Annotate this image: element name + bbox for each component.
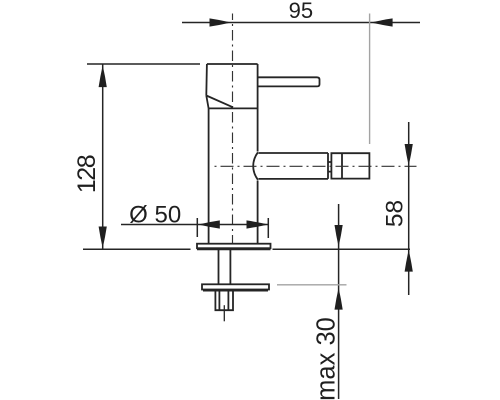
dimension line max 30 bbox=[338, 204, 340, 399]
arrowhead d50 right bbox=[247, 220, 269, 228]
spout centerline (horizontal dash-dot) bbox=[215, 165, 417, 167]
spout tube bbox=[259, 153, 329, 179]
faucet body bbox=[209, 64, 258, 244]
body centerline (vertical dash-dot) bbox=[232, 14, 234, 244]
dimension line 128 bbox=[102, 65, 104, 250]
arrowhead 95 right bbox=[371, 18, 393, 26]
handle top cap bbox=[206, 64, 257, 108]
arrowhead 128 top bbox=[99, 65, 107, 87]
countertop surface line bbox=[83, 248, 410, 250]
lever arm bbox=[258, 77, 320, 86]
svg-text:95: 95 bbox=[289, 0, 313, 23]
nut center mark bbox=[223, 305, 225, 321]
base plate bbox=[197, 244, 271, 249]
mounting nut bbox=[215, 290, 233, 311]
extension tick d50 left bbox=[196, 218, 198, 237]
dimension line 95 bbox=[182, 22, 420, 24]
spout neck groove bbox=[328, 162, 331, 172]
dimension line diameter 50 bbox=[121, 224, 268, 226]
arrowhead 58 bottom bbox=[405, 250, 413, 272]
dimension line 58 bbox=[408, 122, 410, 295]
arrowhead 95 left bbox=[210, 18, 232, 26]
extension line right (grey) bbox=[369, 14, 371, 145]
arrowhead 58 top bbox=[405, 144, 413, 166]
arrowhead d50 left bbox=[198, 220, 220, 228]
svg-text:128: 128 bbox=[73, 155, 101, 193]
extension line top (128) bbox=[87, 63, 200, 65]
svg-text:58: 58 bbox=[382, 200, 409, 227]
threaded shank bbox=[219, 249, 231, 285]
svg-text:Ø 50: Ø 50 bbox=[129, 201, 181, 228]
arrowhead max30 up bbox=[335, 288, 343, 310]
svg-text:max 30: max 30 bbox=[313, 317, 341, 400]
spout-body intersection curve bbox=[253, 152, 258, 180]
aerator housing bbox=[331, 153, 369, 178]
arrowhead max30 down bbox=[335, 225, 343, 247]
arrowhead 128 bottom bbox=[99, 227, 107, 249]
mounting washer plate bbox=[202, 284, 269, 289]
countertop underside line (grey) bbox=[277, 284, 347, 286]
extension tick d50 right bbox=[267, 218, 269, 238]
